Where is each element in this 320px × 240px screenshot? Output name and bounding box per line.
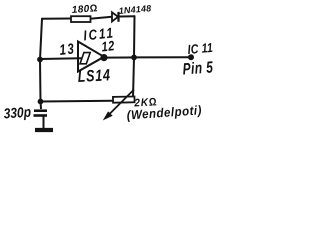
wire inverter output <box>104 56 134 58</box>
junction dot right node <box>131 55 137 61</box>
label 330p <box>3 104 31 122</box>
wire top middle (resistor to diode) <box>90 17 112 19</box>
svg-text:180Ω: 180Ω <box>71 3 98 16</box>
inverter U1 74LS14 triangle <box>78 42 104 72</box>
junction dot at inverter output <box>100 54 107 61</box>
label 2K <box>133 96 158 110</box>
label 180ohm <box>71 3 98 16</box>
terminal dot Pin5 <box>188 54 194 60</box>
capacitor C1 330p <box>34 102 48 129</box>
diode D1 1N4148 <box>112 12 119 22</box>
svg-text:IC 11: IC 11 <box>187 40 214 58</box>
potentiometer R2 body <box>113 96 135 102</box>
wire left vertical <box>40 19 42 102</box>
label Wendelpoti <box>126 103 202 123</box>
label LS14 below inverter <box>77 67 111 87</box>
resistor R1 180ohm body <box>71 16 91 22</box>
pin 12 label <box>101 38 116 55</box>
label 1N4148 <box>118 3 151 16</box>
label IC11 above inverter <box>83 24 116 44</box>
svg-text:330p: 330p <box>3 104 31 122</box>
potentiometer wiper arrow <box>104 90 134 120</box>
svg-text:Pin 5: Pin 5 <box>182 59 214 79</box>
wire inverter input <box>40 57 81 60</box>
svg-text:12: 12 <box>101 38 116 55</box>
svg-text:1N4148: 1N4148 <box>118 3 151 16</box>
svg-text:13: 13 <box>59 40 76 58</box>
ground bar <box>35 128 53 132</box>
wire bottom (node to potentiometer) <box>41 100 114 103</box>
junction dot bottom-left node <box>38 99 44 105</box>
wire right vertical <box>133 16 135 98</box>
svg-text:LS14: LS14 <box>77 67 111 87</box>
wire top-left horizontal <box>42 18 71 20</box>
label Pin5 <box>182 59 214 79</box>
wire output to Pin5 <box>134 56 190 58</box>
junction dot left node <box>37 57 43 63</box>
pin 13 label <box>59 40 76 58</box>
label IC11 right <box>187 40 214 58</box>
wire top right (diode to corner) <box>119 15 135 17</box>
hysteresis symbol inside U1 <box>80 53 90 64</box>
